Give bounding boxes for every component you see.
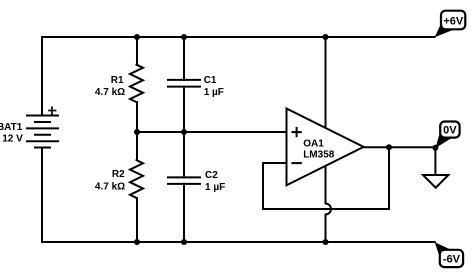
flag +6V (435, 11, 466, 38)
wire op-amp output (364, 146, 436, 148)
wire bottom rail -6V net (42, 241, 435, 243)
wire top rail +6V net (42, 36, 435, 38)
node junction top rail op-amp V+ (323, 34, 329, 40)
op-amp + input symbol (291, 127, 301, 137)
node junction bottom rail op-amp V- (323, 239, 329, 245)
svg-text:1 µF: 1 µF (205, 182, 225, 193)
svg-text:12 V: 12 V (2, 134, 23, 145)
wire R1 bottom / R2 top lead (136, 102, 138, 160)
svg-text:C2: C2 (205, 170, 218, 181)
svg-text:R1: R1 (111, 75, 124, 86)
flag -6V (435, 242, 463, 267)
capacitor C1 (168, 80, 200, 87)
op-amp OA1 triangle (287, 109, 364, 186)
svg-text:4.7 kΩ: 4.7 kΩ (95, 182, 125, 193)
wire battery top lead (41, 37, 43, 116)
node junction output ground/flag (432, 145, 438, 151)
wire middle net to op-amp + input (137, 131, 287, 133)
node junction bottom rail R chain (134, 239, 140, 245)
resistor R2 (130, 160, 143, 198)
node junction middle C (181, 129, 187, 135)
wire C2 bottom lead (183, 184, 185, 242)
label C2 (205, 170, 218, 181)
ground symbol (423, 175, 448, 188)
label C1 (204, 75, 217, 86)
wire R2 bottom lead (136, 198, 138, 242)
svg-text:+6V: +6V (443, 15, 464, 27)
svg-text:R2: R2 (112, 169, 125, 180)
svg-text:OA1: OA1 (303, 139, 324, 150)
label R2 value 4.7 kOhm (95, 182, 125, 193)
svg-text:-6V: -6V (443, 253, 461, 265)
node junction output feedback (386, 144, 392, 150)
capacitor C2 (168, 177, 200, 184)
node junction bottom rail C chain (181, 239, 187, 245)
svg-text:LM358: LM358 (303, 149, 335, 160)
node junction top rail R chain (134, 34, 140, 40)
wire C1 top lead (183, 37, 185, 80)
label 12 V (2, 134, 23, 145)
label LM358 (303, 149, 335, 160)
svg-text:4.7 kΩ: 4.7 kΩ (95, 87, 125, 98)
node junction middle R (134, 129, 140, 135)
battery plus sign (48, 106, 56, 114)
label R1 (111, 75, 124, 86)
svg-text:C1: C1 (204, 75, 217, 86)
wire op-amp supply vertical with hop over feedback (326, 37, 332, 242)
label BAT1 (0, 122, 23, 133)
wire C1 bottom / C2 top lead (183, 87, 185, 178)
label C2 value 1 uF (205, 182, 225, 193)
label OA1 (303, 139, 324, 150)
label R1 value 4.7 kOhm (95, 87, 125, 98)
node junction top rail C chain (181, 34, 187, 40)
flag 0V (435, 122, 459, 149)
wire battery bottom lead (41, 148, 43, 243)
wire ground drop (434, 147, 436, 175)
battery BAT1 plates (26, 116, 59, 148)
svg-text:0V: 0V (443, 125, 457, 137)
svg-text:1 µF: 1 µF (204, 87, 224, 98)
op-amp - input symbol (291, 162, 301, 164)
resistor R1 (130, 65, 143, 102)
svg-text:BAT1: BAT1 (0, 122, 23, 133)
label C1 value 1 uF (204, 87, 224, 98)
wire R1 top lead (136, 37, 138, 65)
wire feedback from - input (263, 147, 389, 209)
label R2 (112, 169, 125, 180)
